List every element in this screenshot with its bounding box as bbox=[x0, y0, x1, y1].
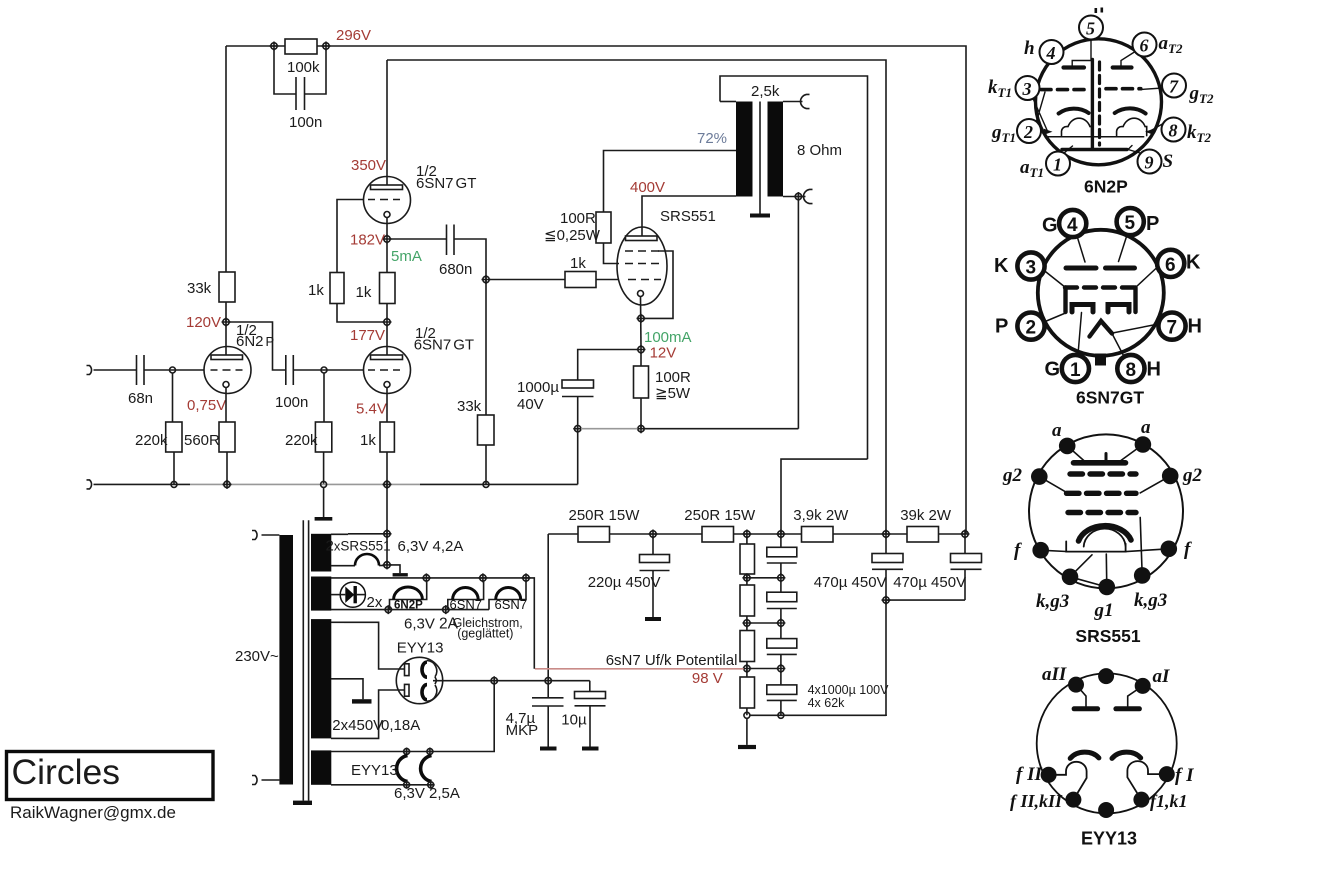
svg-text:SRS551: SRS551 bbox=[660, 208, 716, 225]
heater crescent EYY13 b bbox=[421, 756, 432, 782]
wire cathode SRS551 down bbox=[640, 297, 643, 347]
wire cathode 6N2P to 560R bbox=[225, 388, 227, 423]
label 6,3V 2A bbox=[404, 616, 459, 633]
ground (OPT core) bbox=[750, 214, 770, 218]
label 6sN7 Uf/k Potentilal bbox=[606, 652, 738, 669]
resistor 100R 0,25W (screen stopper) bbox=[544, 210, 611, 244]
label Gleichstrom geglaettet bbox=[453, 616, 523, 641]
svg-text:120V: 120V bbox=[186, 314, 221, 331]
svg-text:5: 5 bbox=[1125, 213, 1136, 234]
svg-text:6SN7GT: 6SN7GT bbox=[1076, 388, 1144, 408]
wire riser rail to EYY13 output bbox=[547, 534, 549, 681]
EYY13 pin dot fIIkII bbox=[1065, 792, 1081, 808]
wire divider ground bbox=[746, 718, 748, 745]
resistor 33k (feedback divider) bbox=[457, 398, 494, 445]
wire chain bottom to 470u tie bbox=[750, 714, 886, 717]
wire 0V bus bbox=[94, 483, 578, 485]
transformer T1 primary bar bbox=[279, 535, 293, 785]
SRS551 pin dot g2 right bbox=[1162, 468, 1179, 485]
svg-text:220k: 220k bbox=[285, 432, 318, 449]
EYY13 filament hook left bbox=[1052, 762, 1087, 797]
label 1/2 6N2P bbox=[236, 322, 274, 350]
node bus 220k-1 bbox=[171, 481, 177, 487]
node bus 1k cathode bbox=[383, 480, 392, 489]
capacitor 1000u chain C1 bbox=[767, 537, 797, 575]
node divider top bbox=[742, 530, 751, 539]
svg-text:680n: 680n bbox=[439, 261, 472, 278]
node winding1 bottom bbox=[383, 560, 392, 569]
svg-text:G: G bbox=[1042, 215, 1058, 237]
triode U2b 6SN7GT lower bbox=[364, 347, 411, 394]
EYY13 label f1k1 bbox=[1150, 791, 1188, 811]
6SN7 plate bar left bbox=[1066, 266, 1096, 271]
svg-text:2x450V: 2x450V bbox=[332, 717, 383, 734]
svg-text:2: 2 bbox=[1023, 122, 1033, 142]
label 2xSRS551 bbox=[326, 538, 391, 555]
svg-text:182V: 182V bbox=[350, 232, 385, 249]
6N2P plate bar right bbox=[1113, 51, 1136, 68]
label 296V bbox=[336, 27, 371, 44]
label EYY13 heater bbox=[351, 762, 398, 779]
6SN7 plate bar right bbox=[1106, 266, 1135, 271]
node winding4 bottom b bbox=[427, 781, 435, 789]
SRS551 pin dot g1 bbox=[1099, 579, 1116, 596]
6SN7 envelope bbox=[1038, 230, 1164, 356]
6N2P grid dashes left bbox=[1041, 88, 1089, 92]
SRS551 label a left bbox=[1052, 420, 1062, 441]
wire winding4 top lead bbox=[331, 684, 494, 752]
svg-text:6N2P: 6N2P bbox=[1084, 177, 1128, 197]
svg-text:2,5k: 2,5k bbox=[751, 83, 780, 100]
node bus 33k-2 bbox=[483, 481, 489, 487]
wire grid node to 220k bbox=[172, 373, 174, 422]
svg-text:220µ 450V: 220µ 450V bbox=[588, 574, 661, 591]
socket diagram SRS551 bbox=[1002, 417, 1203, 646]
terminal 0V input bbox=[87, 480, 92, 489]
6N2P arrow right bbox=[1145, 129, 1154, 135]
SRS551 internal leads bbox=[1039, 445, 1170, 588]
node heater2 b bbox=[478, 573, 487, 582]
node on rail right of R 100k bbox=[322, 42, 331, 51]
SRS551 plate bar bbox=[1074, 454, 1126, 463]
6N2P pin label gT1 bbox=[991, 122, 1016, 145]
resistor 1k SRPP left bbox=[308, 273, 344, 304]
node 1000u bottom tie bbox=[573, 424, 582, 433]
capacitor 470u 450V second bbox=[893, 537, 981, 600]
svg-text:1k: 1k bbox=[308, 282, 324, 299]
svg-text:220k: 220k bbox=[135, 432, 168, 449]
svg-text:296V: 296V bbox=[336, 27, 371, 44]
6N2P pin 9 bbox=[1138, 150, 1162, 174]
node winding1 top bbox=[383, 529, 392, 538]
svg-text:8: 8 bbox=[1126, 360, 1137, 381]
svg-text:560R: 560R bbox=[184, 432, 220, 449]
wire 177V node to plate bbox=[386, 325, 388, 355]
label 0,75V bbox=[187, 397, 226, 414]
svg-text:4: 4 bbox=[1046, 43, 1056, 63]
EYY13 pin dot fII bbox=[1041, 767, 1057, 783]
6N2P arrow left bbox=[1044, 129, 1053, 135]
6N2P cathode arc left bbox=[1059, 109, 1089, 114]
triode U1a 6N2P bbox=[204, 347, 251, 394]
ground (0V bus) bbox=[315, 517, 333, 521]
SRS551 cathode arc bbox=[1079, 526, 1132, 541]
wire 1000u bottom to bus bbox=[577, 397, 579, 485]
heater hump 6N2P bbox=[390, 581, 427, 612]
label 350V bbox=[351, 157, 386, 174]
6SN7 frame verticals bbox=[1066, 288, 1136, 313]
svg-text:33k: 33k bbox=[187, 280, 212, 297]
svg-text:2: 2 bbox=[1026, 318, 1037, 339]
svg-text:6SN7: 6SN7 bbox=[495, 597, 528, 612]
svg-text:P: P bbox=[1146, 213, 1159, 235]
6SN7 heater tent bbox=[1090, 321, 1113, 337]
6N2P pin label kT1 bbox=[988, 77, 1012, 100]
svg-text:4x1000µ 100V: 4x1000µ 100V bbox=[808, 683, 890, 697]
label 100mA bbox=[644, 329, 692, 346]
SRS551 name bbox=[1075, 626, 1140, 646]
6SN7 pin 1 bbox=[1062, 355, 1089, 382]
node SRS551 grid bbox=[482, 275, 491, 284]
SRS551 cathode dome bbox=[1084, 529, 1126, 547]
6SN7 pin 3 bbox=[1017, 252, 1044, 279]
resistor 250R 15W second bbox=[684, 507, 756, 542]
6N2P pin label aT1 bbox=[1020, 157, 1044, 180]
wire 72% tap to 100R bbox=[604, 151, 737, 213]
svg-text:100n: 100n bbox=[275, 394, 308, 411]
terminal mains top bbox=[252, 531, 279, 540]
wire node to 220k second bbox=[323, 373, 325, 422]
label 5.4V bbox=[356, 401, 387, 418]
node cap chain top bbox=[776, 530, 785, 539]
6N2P pin 6 bbox=[1133, 33, 1157, 57]
resistor 3,9k 2W bbox=[793, 507, 849, 542]
svg-text:68n: 68n bbox=[128, 390, 153, 407]
svg-text:g1: g1 bbox=[1094, 600, 1114, 621]
svg-text:33k: 33k bbox=[457, 398, 482, 415]
wire secondary top lead bbox=[783, 101, 803, 103]
wire SRPP right 1k top to 182V node bbox=[386, 242, 388, 273]
node heater2 a bbox=[422, 573, 431, 582]
ground (HT center tap) bbox=[352, 699, 372, 703]
wire 428 node line bbox=[581, 428, 798, 430]
node 470u second bbox=[961, 530, 970, 539]
resistor 1k SRPP right bbox=[356, 273, 396, 304]
capacitor 470u 450V first bbox=[814, 537, 903, 716]
6N2P pin label h bbox=[1024, 38, 1035, 59]
node cap tap2 bbox=[776, 619, 785, 628]
svg-text:Circles: Circles bbox=[12, 752, 120, 792]
6SN7 grid dashes bbox=[1065, 285, 1136, 289]
svg-text:≧5W: ≧5W bbox=[655, 385, 691, 402]
svg-text:RaikWagner@gmx.de: RaikWagner@gmx.de bbox=[10, 803, 176, 822]
svg-text:a: a bbox=[1141, 417, 1151, 438]
resistor 33k (6N2P plate load) bbox=[187, 272, 235, 302]
wire chain interconnect tap1 bbox=[750, 577, 778, 579]
6N2P pin label aT2 bbox=[1159, 33, 1183, 56]
svg-text:EYY13: EYY13 bbox=[397, 640, 444, 657]
wire cathode 6SN7 lower to 1k bbox=[386, 388, 388, 423]
svg-text:250R 15W: 250R 15W bbox=[569, 507, 641, 524]
resistor 560R (cathode) bbox=[184, 422, 235, 452]
svg-text:S: S bbox=[1163, 151, 1174, 172]
label 1/2 6SN7GT lower bbox=[414, 325, 474, 354]
node cathode g3 bbox=[637, 314, 646, 323]
label 177V bbox=[350, 327, 385, 344]
SRS551 label a right bbox=[1141, 417, 1151, 438]
svg-text:H: H bbox=[1188, 316, 1202, 338]
svg-text:3: 3 bbox=[1022, 79, 1032, 99]
6SN7 pin 6 bbox=[1157, 250, 1184, 277]
svg-text:4: 4 bbox=[1067, 215, 1078, 236]
SRS551 grid row 3 bbox=[1068, 510, 1136, 515]
svg-text:1: 1 bbox=[1053, 155, 1062, 175]
svg-text:6,3V 2,5A: 6,3V 2,5A bbox=[394, 785, 460, 802]
6SN7 pin 2 bbox=[1017, 313, 1044, 340]
resistor 62k chain R2 bbox=[740, 585, 755, 616]
label 4x1000u 100V 4x 62k bbox=[808, 683, 890, 710]
EYY13 pin dot fI bbox=[1159, 766, 1175, 782]
label RaikWagner email bbox=[10, 803, 176, 822]
EYY13 cathode arc right bbox=[1112, 752, 1141, 758]
svg-text:8: 8 bbox=[1169, 121, 1178, 141]
node heater tie bbox=[490, 676, 499, 685]
svg-text:4x 62k: 4x 62k bbox=[808, 696, 846, 710]
OPT primary bar bbox=[736, 102, 753, 197]
svg-text:k,g3: k,g3 bbox=[1134, 590, 1167, 611]
node divider tap2 bbox=[742, 619, 751, 628]
svg-text:g2: g2 bbox=[1182, 465, 1203, 486]
wire input to 68n bbox=[94, 369, 137, 371]
svg-text:G: G bbox=[1045, 359, 1061, 381]
svg-text:f II: f II bbox=[1016, 764, 1042, 785]
SRS551 pin dot kg3 right bbox=[1134, 567, 1151, 584]
6SN7 pin label P5 bbox=[1146, 213, 1159, 235]
wire 100R to screen grid bbox=[604, 243, 620, 264]
resistor 220k (6SN7 grid leak) bbox=[285, 422, 332, 452]
EYY13 pin dot aI bbox=[1135, 678, 1151, 694]
svg-text:3: 3 bbox=[1026, 258, 1037, 279]
svg-text:k,g3: k,g3 bbox=[1036, 591, 1069, 612]
rectifier V4 EYY13 bbox=[396, 657, 442, 703]
wire divider chain links bbox=[746, 537, 748, 715]
6SN7 pin label H8 bbox=[1147, 359, 1161, 381]
wire plate 6SN7 upper bbox=[386, 60, 388, 185]
svg-text:K: K bbox=[1186, 252, 1201, 274]
svg-text:8 Ohm: 8 Ohm bbox=[797, 142, 842, 159]
label 5mA bbox=[391, 248, 422, 265]
node heater2 bottom b bbox=[441, 605, 450, 614]
svg-text:2x: 2x bbox=[367, 594, 383, 611]
EYY13 anode leads bbox=[1076, 685, 1143, 707]
label 72% bbox=[697, 130, 727, 147]
SRS551 pin dot a left bbox=[1059, 438, 1076, 455]
svg-text:5mA: 5mA bbox=[391, 248, 422, 265]
svg-text:6SN7GT: 6SN7GT bbox=[416, 175, 476, 192]
wire 33k to 120V node bbox=[225, 302, 227, 322]
svg-text:0,75V: 0,75V bbox=[187, 397, 226, 414]
svg-text:12V: 12V bbox=[650, 345, 677, 362]
wire 296V top rail bbox=[226, 46, 966, 534]
svg-text:1k: 1k bbox=[356, 284, 372, 301]
6SN7 key notch bbox=[1095, 354, 1106, 366]
6N2P name bbox=[1084, 177, 1128, 197]
input terminal bbox=[87, 366, 92, 375]
node winding4 top b bbox=[426, 748, 434, 756]
EYY13 cathode arc left bbox=[1070, 752, 1099, 758]
svg-text:f I: f I bbox=[1175, 765, 1194, 786]
wire 12V node to 1000u bbox=[578, 350, 638, 381]
EYY13 pin dot top bbox=[1098, 668, 1114, 684]
6SN7 pin label G1 bbox=[1045, 359, 1061, 381]
node 182V bbox=[350, 232, 392, 249]
svg-text:0,18A: 0,18A bbox=[381, 717, 420, 734]
6N2P shield dashed bbox=[1098, 62, 1101, 145]
label 2x450V 0,18A bbox=[332, 717, 420, 734]
ground (T1 core) bbox=[293, 801, 312, 805]
wire 560R to bus bbox=[226, 452, 228, 484]
node grid 6N2P bbox=[170, 367, 176, 373]
svg-text:SRS551: SRS551 bbox=[1075, 626, 1140, 646]
node winding4 top a bbox=[403, 748, 411, 756]
node 470u tie bbox=[882, 596, 891, 605]
svg-text:aII: aII bbox=[1042, 664, 1067, 685]
6SN7 pin 7 bbox=[1158, 313, 1185, 340]
transformer winding bar 6,3V 2A bbox=[311, 577, 331, 611]
wire 68n to grid 6N2P bbox=[144, 369, 204, 371]
EYY13 label fIIkII bbox=[1010, 791, 1063, 811]
wire winding3 center tap bbox=[331, 679, 363, 699]
6N2P grid dashes right bbox=[1106, 87, 1141, 91]
wire 100n to grid 6SN7 lower bbox=[293, 369, 363, 371]
node cap chain bottom bbox=[778, 712, 784, 718]
wire bus ground drop bbox=[323, 487, 325, 517]
6N2P pin 7 bbox=[1162, 74, 1186, 98]
6SN7 pin 8 bbox=[1117, 355, 1144, 382]
svg-text:3,9k 2W: 3,9k 2W bbox=[793, 507, 849, 524]
svg-text:400V: 400V bbox=[630, 179, 665, 196]
label 400V bbox=[630, 179, 665, 196]
EYY13 anode bar right bbox=[1116, 706, 1140, 711]
svg-text:470µ 450V: 470µ 450V bbox=[814, 574, 887, 591]
wire feedback from secondary bbox=[797, 200, 799, 429]
node cap tap3 bbox=[776, 664, 785, 673]
svg-text:EYY13: EYY13 bbox=[351, 762, 398, 779]
6N2P cathode dome right bbox=[1117, 118, 1147, 135]
EYY13 pin dot bottom bbox=[1098, 802, 1114, 818]
svg-text:470µ 450V: 470µ 450V bbox=[893, 574, 966, 591]
resistor 100k bbox=[285, 39, 320, 76]
capacitor 1000u chain C4 bbox=[767, 672, 797, 716]
wire SRPP left 1k bottom to 177V node bbox=[337, 304, 384, 323]
svg-text:98 V: 98 V bbox=[692, 670, 723, 687]
wire winding1 top lead bbox=[331, 533, 387, 536]
capacitor 68n bbox=[128, 355, 153, 407]
SRS551 label f right bbox=[1184, 539, 1192, 560]
wire 1k to bus and heater winding bbox=[386, 452, 388, 565]
capacitor 100n coupling bbox=[275, 355, 308, 411]
node cathode resistor bottom bbox=[637, 424, 646, 433]
6SN7 cathode staple right bbox=[1108, 305, 1129, 313]
svg-text:h: h bbox=[1024, 38, 1035, 59]
6SN7 pin label K6 bbox=[1186, 252, 1201, 274]
label 2,5k bbox=[751, 83, 780, 100]
triode U2a 6SN7GT upper bbox=[364, 177, 411, 224]
node filter tie bbox=[544, 676, 553, 685]
wire winding2 bottom lead bbox=[331, 609, 489, 611]
node 12V bbox=[637, 345, 646, 354]
label 8 Ohm bbox=[797, 142, 842, 159]
svg-text:100mA: 100mA bbox=[644, 329, 692, 346]
capacitor 680n bbox=[439, 225, 472, 279]
SRS551 grid row 2 bbox=[1067, 491, 1137, 496]
resistor 1k (6SN7 cathode) bbox=[360, 422, 394, 452]
capacitor 10u bbox=[561, 681, 605, 747]
socket diagram EYY13 bbox=[1010, 664, 1194, 849]
SRS551 pin dot g2 left bbox=[1031, 468, 1048, 485]
wire OPT primary top lead bbox=[720, 101, 736, 103]
6N2P heater bar bbox=[1062, 60, 1127, 150]
6N2P cathode dome left bbox=[1062, 118, 1092, 135]
svg-text:(geglättet): (geglättet) bbox=[457, 627, 513, 641]
node bus 220k-2 ground bbox=[321, 481, 327, 487]
resistor 220k (input grid leak) bbox=[135, 422, 182, 452]
wire winding2 top lead bbox=[331, 578, 534, 669]
svg-text:6,3V 2A: 6,3V 2A bbox=[404, 616, 459, 633]
svg-text:1000µ: 1000µ bbox=[517, 379, 559, 396]
capacitor 220u 450V bbox=[588, 537, 670, 617]
svg-text:100k: 100k bbox=[287, 59, 320, 76]
resistor 1k (SRS551 grid stopper) bbox=[565, 255, 596, 288]
svg-text:10µ: 10µ bbox=[561, 712, 587, 729]
node bus 560R bbox=[223, 480, 232, 489]
svg-text:MKP: MKP bbox=[506, 722, 539, 739]
wire 120V to coupling cap bbox=[229, 322, 286, 370]
resistor 250R 15W first bbox=[569, 507, 641, 542]
svg-text:6,3V 4,2A: 6,3V 4,2A bbox=[398, 538, 464, 555]
svg-text:100n: 100n bbox=[289, 114, 322, 131]
EYY13 name bbox=[1081, 829, 1137, 849]
6SN7 pin label G4 bbox=[1042, 215, 1058, 237]
transformer winding bar 2x450V bbox=[311, 619, 331, 738]
6N2P pin 2 bbox=[1017, 119, 1041, 143]
diode rectifier 2x bbox=[331, 582, 383, 611]
ground (heater 4,2A) bbox=[393, 573, 408, 576]
svg-text:a: a bbox=[1052, 420, 1062, 441]
wire 33k-2 to bus bbox=[485, 445, 487, 484]
transformer winding bar 6,3V 2,5A bbox=[311, 750, 331, 784]
label 230V~ bbox=[235, 648, 279, 665]
svg-text:6N2P: 6N2P bbox=[236, 333, 274, 350]
node grid 6SN7 lower bbox=[321, 367, 327, 373]
wire 220k to bus bbox=[173, 452, 175, 484]
wire SRPP left 1k top to grid 6SN7 upper bbox=[337, 200, 364, 273]
wire 100n bypass loop bbox=[274, 49, 326, 94]
wire winding3 bottom lead to EYY13 anode2 bbox=[331, 690, 405, 738]
label 98 V bbox=[692, 670, 723, 687]
SRS551 pin dot f right bbox=[1161, 541, 1178, 558]
EYY13 pin dot f1k1 bbox=[1133, 792, 1149, 808]
ground (4,7u) bbox=[540, 747, 557, 751]
6N2P pin 4 bbox=[1040, 40, 1064, 64]
svg-text:H: H bbox=[1147, 359, 1161, 381]
wire g3 to cathode node bbox=[644, 251, 673, 318]
node winding4 bottom a bbox=[403, 781, 411, 789]
wire left drop to 33k bbox=[225, 46, 227, 272]
6SN7 cathode staple left bbox=[1072, 305, 1093, 313]
svg-text:177V: 177V bbox=[350, 327, 385, 344]
wire chain interconnect tap3 bbox=[750, 668, 778, 670]
